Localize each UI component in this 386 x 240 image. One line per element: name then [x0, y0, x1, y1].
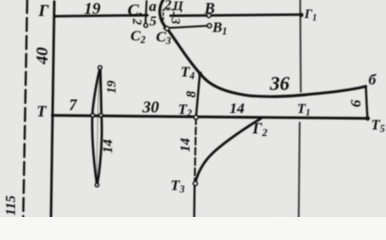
point В1	[207, 24, 211, 28]
dart apex	[98, 66, 102, 70]
line С3 to В1	[164, 26, 207, 28]
vertical at Г1 top	[299, 0, 302, 92]
filled dots	[198, 13, 370, 121]
top line Г to С	[55, 15, 147, 16]
curve Г2 to Т3	[196, 118, 261, 181]
dart left edge	[92, 69, 100, 185]
point Т4	[198, 72, 202, 76]
point В	[207, 13, 211, 17]
point Г1	[299, 13, 303, 17]
main left vertical line	[51, 2, 54, 218]
point Т2	[194, 115, 198, 119]
point С3	[165, 27, 169, 31]
side seam б to Т5	[366, 86, 368, 116]
dart right edge	[97, 69, 102, 185]
dart waist right	[99, 114, 102, 117]
vertical Т2-Т3 dashed	[195, 117, 196, 182]
dart tip	[95, 183, 98, 186]
open circles	[91, 13, 211, 186]
dart waist left	[91, 114, 94, 117]
dart center crease	[97, 72, 100, 181]
vertical Т3 down	[193, 185, 196, 217]
vertical Т4-Т2	[196, 75, 200, 118]
top line to Г1	[171, 15, 300, 16]
dashed box at Ц	[163, 10, 174, 20]
point Т3	[193, 182, 197, 186]
waist line Т to Т5	[52, 115, 367, 118]
neck curve С3-Т4 and hip curve to б	[160, 0, 366, 97]
vertical under Т1	[299, 123, 300, 218]
tick at С	[146, 1, 147, 24]
left dashed measurement line	[23, 0, 27, 217]
point С2	[144, 24, 148, 28]
point Т5	[365, 116, 370, 121]
